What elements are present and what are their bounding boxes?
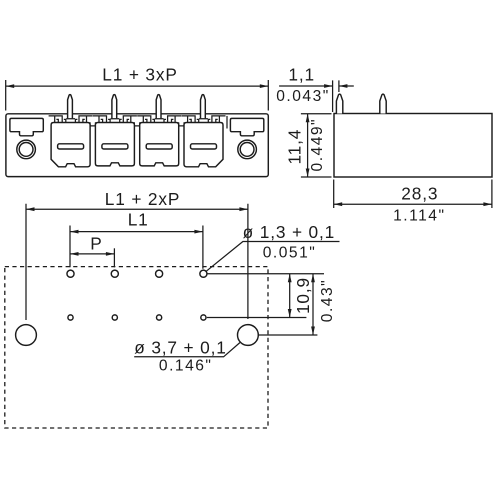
contact slot 1	[58, 144, 84, 149]
drill hole row1 #4 dia 1.3	[200, 270, 207, 277]
connector front view: body outline	[6, 114, 268, 177]
keying rib between poles 1 and 2	[90, 122, 95, 126]
keying step right of pole 4	[226, 116, 228, 129]
svg-text:L1 + 2xP: L1 + 2xP	[105, 189, 181, 209]
svg-text:1,1: 1,1	[288, 64, 315, 84]
right flange bushing outer ring	[238, 140, 257, 159]
drill hole row1 #3 dia 1.3	[156, 270, 163, 277]
svg-text:0.449": 0.449"	[309, 118, 326, 172]
right flange keyway	[230, 118, 263, 135]
PCB outline dashed	[5, 267, 268, 428]
solder pin 1 front view	[68, 95, 73, 119]
label hole dia 1,3 + 0,1 / 0.051" with leader	[206, 222, 339, 271]
drill hole row2 #2	[112, 315, 117, 320]
drill hole row2 #3	[157, 315, 162, 320]
dimension L1 + 2xP	[26, 189, 248, 320]
pole opening 4 castellation	[182, 116, 226, 123]
svg-text:10,9: 10,9	[293, 277, 313, 314]
mounting hole left dia 3,7	[16, 325, 37, 346]
pole opening 2 castellation	[93, 116, 137, 123]
drill hole row2 #1	[68, 315, 73, 320]
contact slot 4	[191, 144, 217, 149]
pole opening 4 outline	[184, 123, 223, 167]
dimension 10,9 / 0.43" row spacing	[207, 274, 336, 335]
svg-text:L1 + 3xP: L1 + 3xP	[102, 65, 178, 85]
svg-text:28,3: 28,3	[401, 184, 438, 204]
svg-text:ø 1,3 + 0,1: ø 1,3 + 0,1	[243, 222, 335, 242]
svg-text:11,4: 11,4	[284, 129, 304, 165]
dimension P pitch	[70, 234, 114, 268]
solder pin 4 front view	[201, 95, 206, 119]
pole opening 3 outline	[140, 123, 179, 166]
right flange bushing inner ring	[240, 143, 254, 157]
svg-text:0.43": 0.43"	[319, 279, 336, 322]
label hole dia 3,7 + 0,1 / 0.146" with leader	[134, 338, 240, 375]
left flange keyway	[10, 118, 43, 135]
solder pin 2 front view	[112, 95, 117, 119]
svg-text:ø 3,7 + 0,1: ø 3,7 + 0,1	[134, 338, 226, 358]
contact slot 3	[146, 144, 172, 149]
svg-text:L1: L1	[128, 210, 149, 230]
keying rib between poles 3 and 4	[179, 122, 184, 126]
mounting hole right dia 3,7	[238, 325, 259, 346]
svg-text:0.043": 0.043"	[276, 88, 330, 105]
keying rib between poles 2 and 3	[134, 122, 139, 126]
svg-text:0.146": 0.146"	[159, 357, 213, 374]
pole opening 1 castellation	[49, 116, 93, 123]
drill hole row1 #2 dia 1.3	[111, 270, 118, 277]
drill hole row1 #1 dia 1.3	[67, 270, 74, 277]
left flange bushing outer ring	[17, 140, 36, 159]
pole opening 1 outline	[51, 123, 90, 167]
solder pin 3 front view	[156, 95, 161, 119]
dimension 11,4 / 0.449" height	[284, 114, 331, 177]
contact slot 2	[102, 144, 128, 149]
svg-text:0.051": 0.051"	[263, 244, 317, 261]
pole opening 2 outline	[95, 123, 134, 166]
side view body	[334, 114, 492, 178]
dimension L1 + 3xP	[6, 65, 269, 111]
side view solder pin row 1	[336, 94, 342, 113]
dimension 1,1 / 0.043" pin width	[276, 64, 354, 112]
pole opening 3 castellation	[137, 116, 181, 123]
dimension L1	[70, 210, 203, 269]
side view solder pin row 2	[380, 94, 386, 113]
svg-text:P: P	[90, 234, 102, 254]
dimension 28,3 / 1.114" width	[334, 180, 492, 225]
drill hole row2 #4	[201, 315, 206, 320]
left flange bushing inner ring	[19, 143, 33, 157]
svg-text:1.114": 1.114"	[393, 208, 445, 225]
